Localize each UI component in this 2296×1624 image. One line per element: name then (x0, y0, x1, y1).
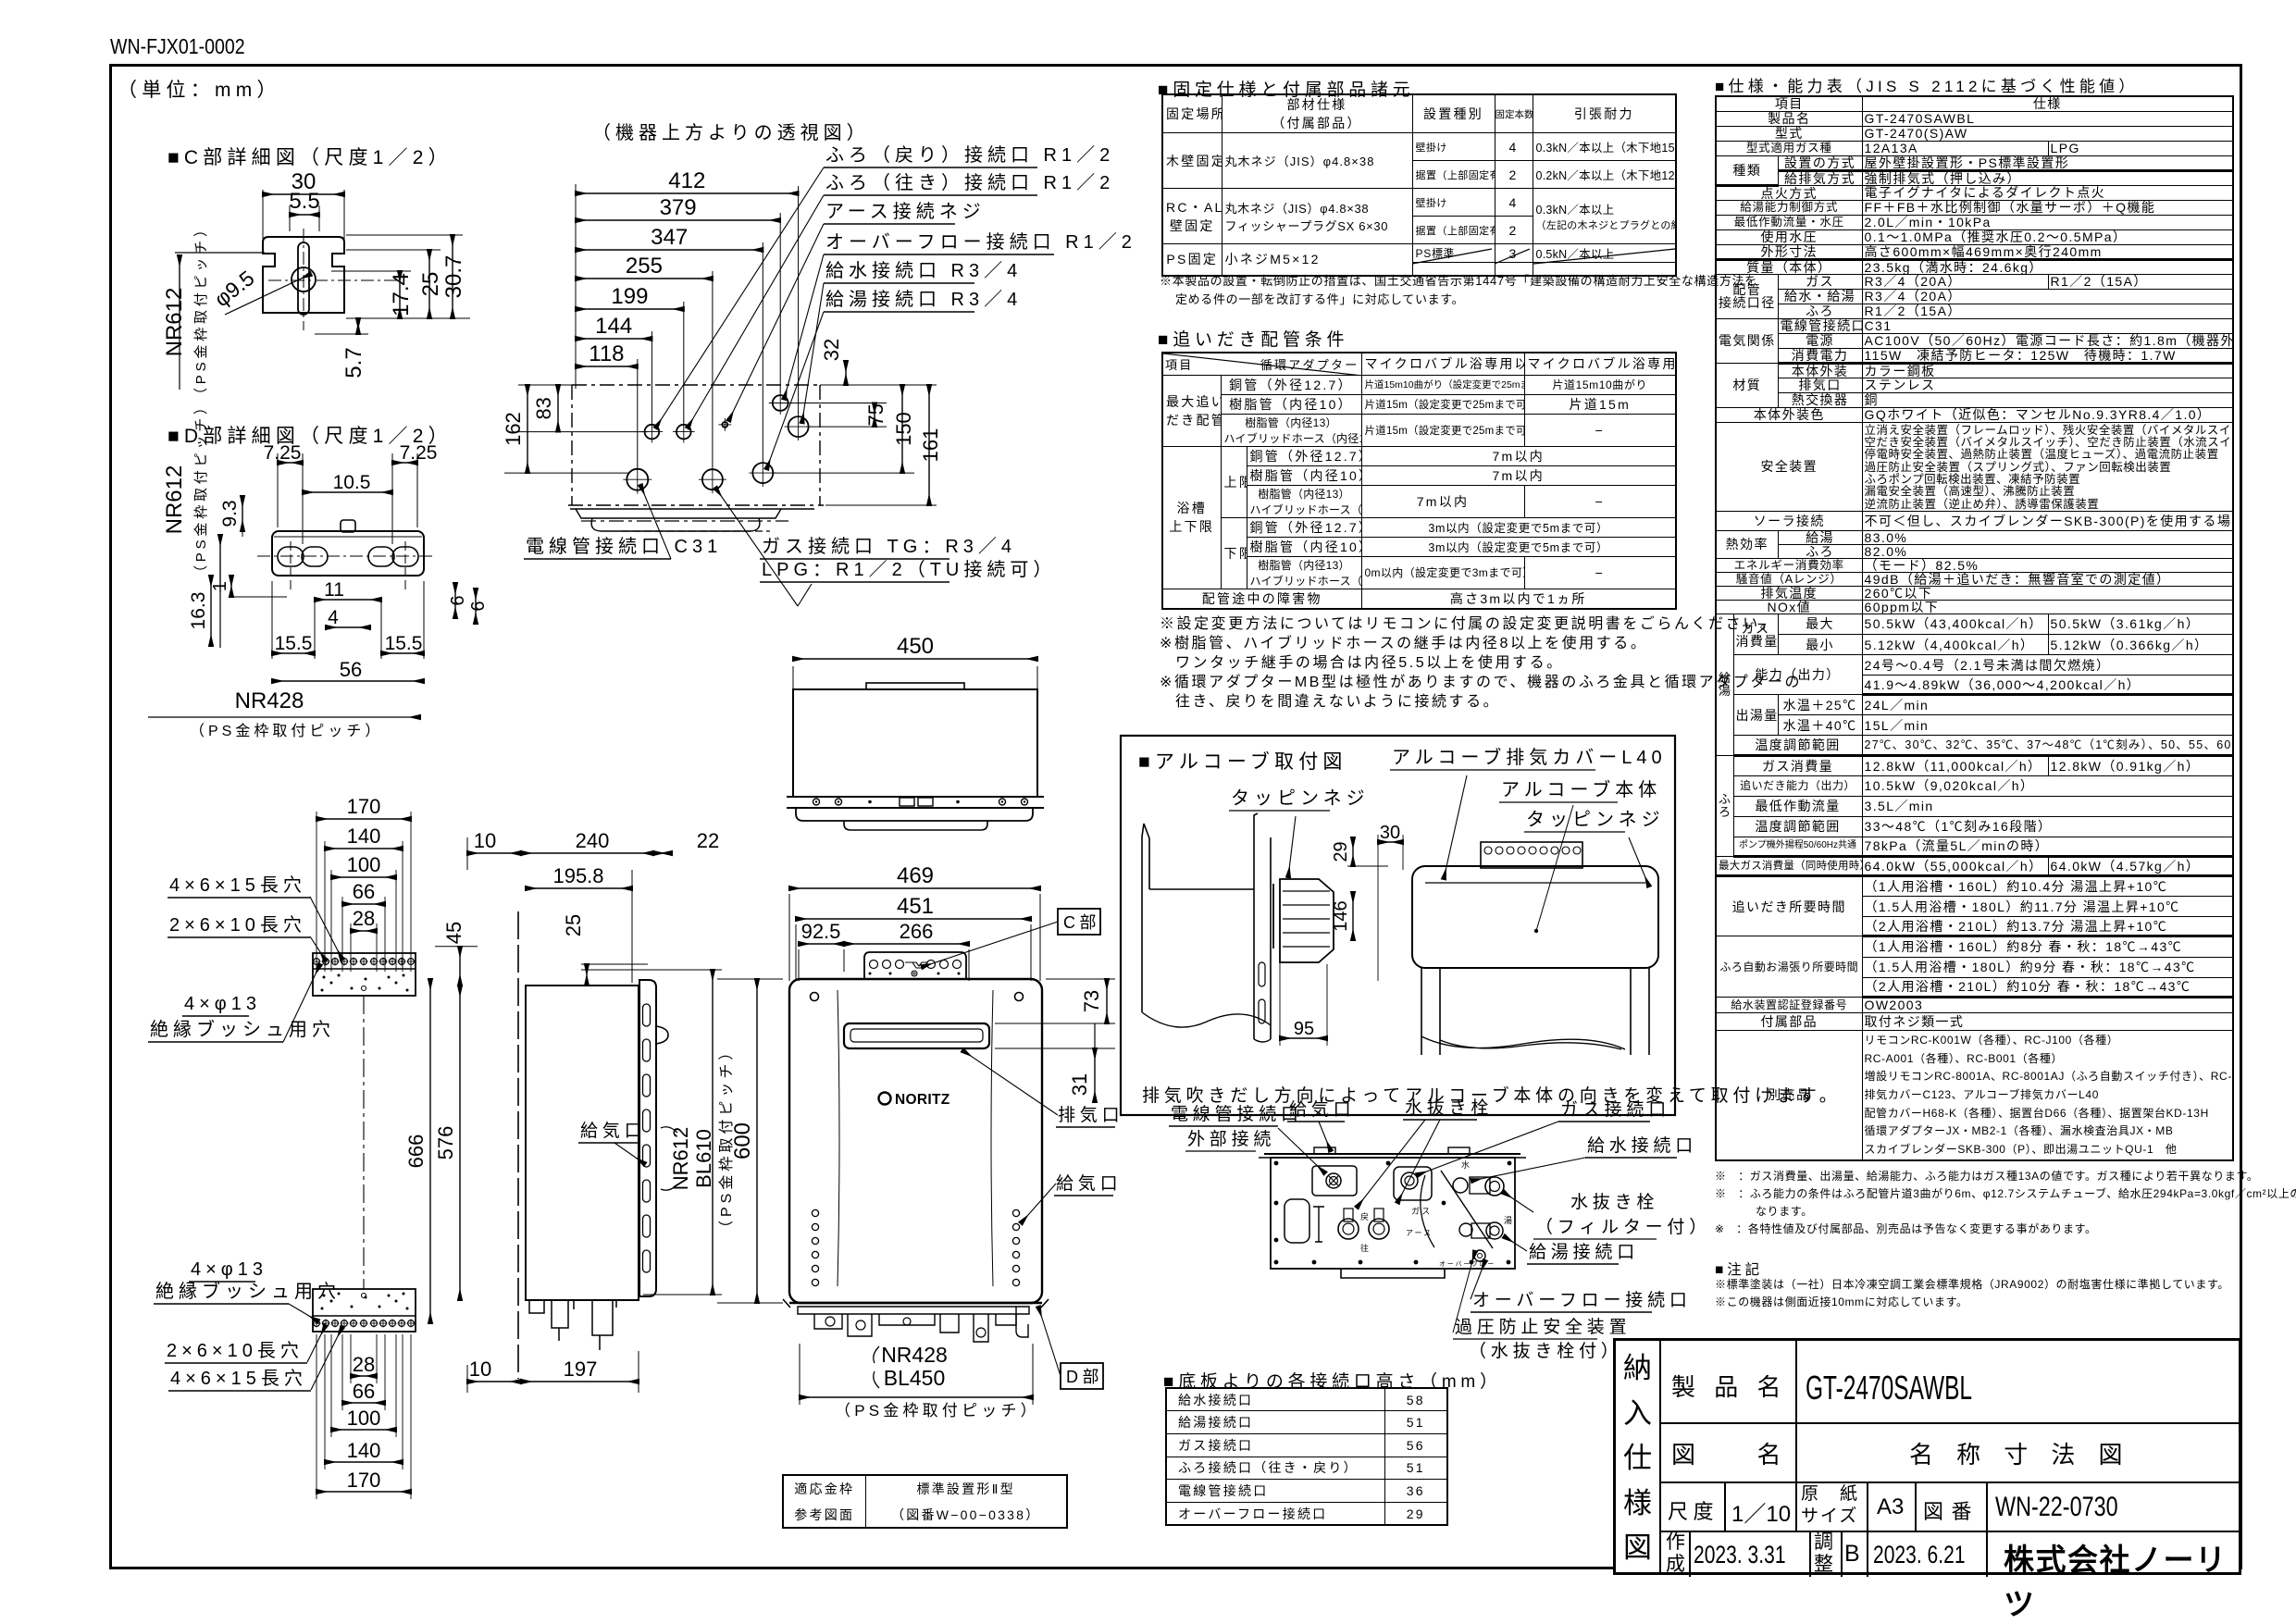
upper mounting plate drawing (316, 818, 411, 820)
fixing spec table title (1158, 76, 1414, 101)
applicable frame table (782, 1474, 1068, 1529)
title block (1613, 1338, 2241, 1575)
front view drawing (789, 887, 1040, 889)
fixing spec table (1161, 93, 1677, 277)
top view drawing (575, 184, 577, 389)
specification table title (1715, 73, 2139, 96)
main specification table (1715, 95, 2234, 1161)
C bracket detail drawing (262, 190, 264, 242)
side view drawing (467, 852, 521, 854)
450 top view drawing (793, 658, 1037, 660)
hatch in PS row of fixing table (1412, 249, 1492, 264)
spec table footnotes (1715, 1168, 2247, 1238)
alcove installation diagram box (1121, 736, 1675, 1115)
rear connection view drawing (1264, 1153, 1520, 1155)
D bracket detail drawing (272, 531, 424, 576)
reheating piping conditions table title (1158, 326, 1348, 351)
drawing number header (110, 34, 245, 59)
reheating piping conditions table (1161, 352, 1677, 610)
connection heights table title (1163, 1368, 1502, 1393)
lower mounting plate drawing (313, 1289, 416, 1332)
connection heights table (1165, 1387, 1448, 1526)
